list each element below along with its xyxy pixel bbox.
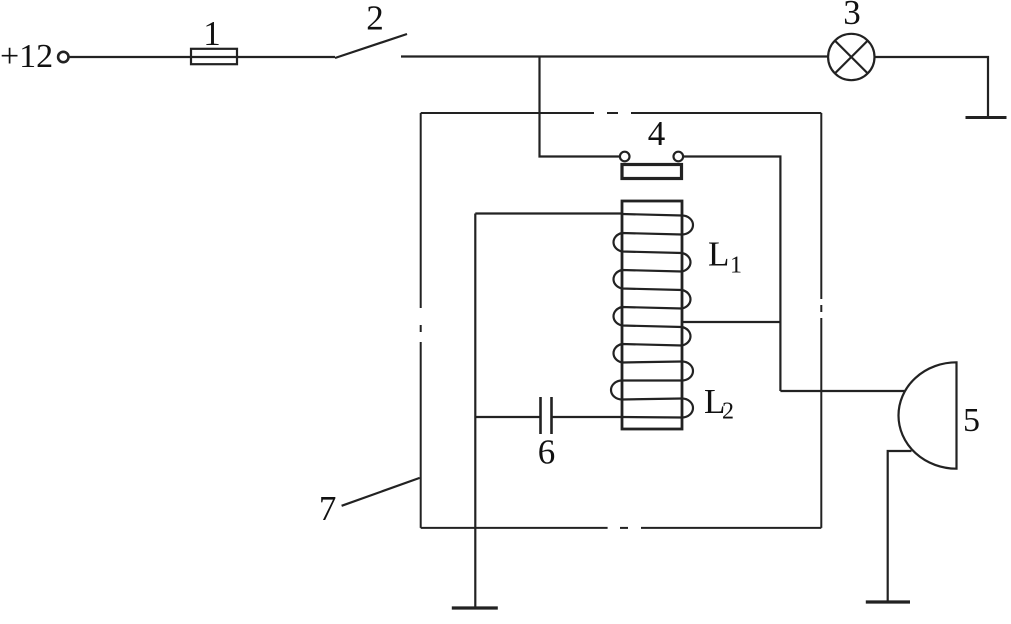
- enclosure box 7 chain line left: [420, 342, 422, 528]
- switch 2 blade: [335, 34, 407, 58]
- wire right rail to horn: [780, 390, 905, 392]
- svg-text:+12: +12: [0, 38, 53, 75]
- svg-text:3: 3: [843, 0, 861, 32]
- wire horn to ground: [888, 451, 912, 602]
- svg-text:1: 1: [203, 14, 221, 53]
- coil core: [622, 201, 682, 429]
- enclosure box 7 chain line right: [820, 113, 822, 299]
- enclosure box 7 chain line bottom: [641, 527, 821, 529]
- svg-text:2: 2: [722, 399, 734, 425]
- node +12 supply terminal: [58, 52, 68, 62]
- wire lamp to ground: [875, 57, 989, 118]
- svg-text:4: 4: [648, 114, 666, 153]
- fuse 1: [191, 49, 237, 64]
- horn 5: [899, 362, 957, 468]
- svg-text:6: 6: [538, 433, 556, 472]
- svg-text:1: 1: [730, 252, 742, 278]
- wire breaker to right rail: [683, 157, 780, 392]
- ground (box left rail): [452, 606, 498, 609]
- wire switch to lamp: [401, 55, 828, 57]
- wire coil top to left rail: [475, 212, 622, 214]
- coil winding L1 L2: [611, 214, 693, 418]
- enclosure box 7 chain line top: [421, 113, 822, 528]
- ground (horn): [866, 600, 910, 603]
- ground (lamp): [966, 116, 1007, 119]
- svg-text:5: 5: [963, 402, 980, 439]
- wire terminal to switch pivot: [70, 56, 336, 58]
- svg-text:2: 2: [366, 0, 384, 38]
- wire left rail down to ground: [474, 214, 476, 607]
- lamp 3: [828, 34, 874, 80]
- leader line for label 7: [342, 478, 420, 506]
- breaker contact points 4: [620, 152, 630, 162]
- svg-text:7: 7: [319, 489, 337, 528]
- capacitor 6: [475, 416, 540, 418]
- wire tap between L1 and L2 to right rail: [682, 321, 780, 323]
- svg-text:L: L: [708, 235, 729, 274]
- wire drop from supply to breaker: [540, 57, 620, 157]
